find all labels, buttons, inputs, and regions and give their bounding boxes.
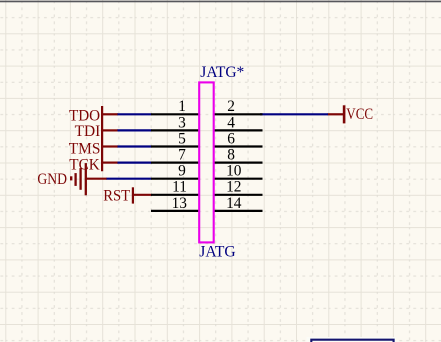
svg-text:JATG*: JATG* — [200, 64, 244, 81]
svg-text:1: 1 — [178, 98, 186, 115]
svg-text:5: 5 — [178, 130, 186, 147]
svg-text:13: 13 — [172, 195, 188, 212]
svg-text:TDI: TDI — [75, 123, 101, 140]
svg-text:8: 8 — [227, 147, 235, 164]
svg-text:3: 3 — [178, 114, 186, 131]
svg-text:7: 7 — [178, 147, 186, 164]
svg-text:9: 9 — [178, 163, 186, 180]
svg-text:RST: RST — [103, 187, 130, 204]
svg-text:6: 6 — [227, 130, 235, 147]
svg-text:12: 12 — [226, 179, 241, 196]
svg-text:14: 14 — [226, 195, 242, 212]
svg-text:GND: GND — [37, 171, 67, 188]
svg-text:TDO: TDO — [69, 107, 100, 124]
svg-text:JATG: JATG — [199, 244, 235, 261]
svg-text:11: 11 — [172, 179, 187, 196]
svg-text:10: 10 — [226, 163, 242, 180]
svg-text:TMS: TMS — [69, 141, 101, 158]
svg-text:VCC: VCC — [346, 106, 373, 123]
svg-text:2: 2 — [227, 98, 235, 115]
svg-text:TCK: TCK — [69, 156, 99, 173]
svg-text:4: 4 — [227, 114, 235, 131]
